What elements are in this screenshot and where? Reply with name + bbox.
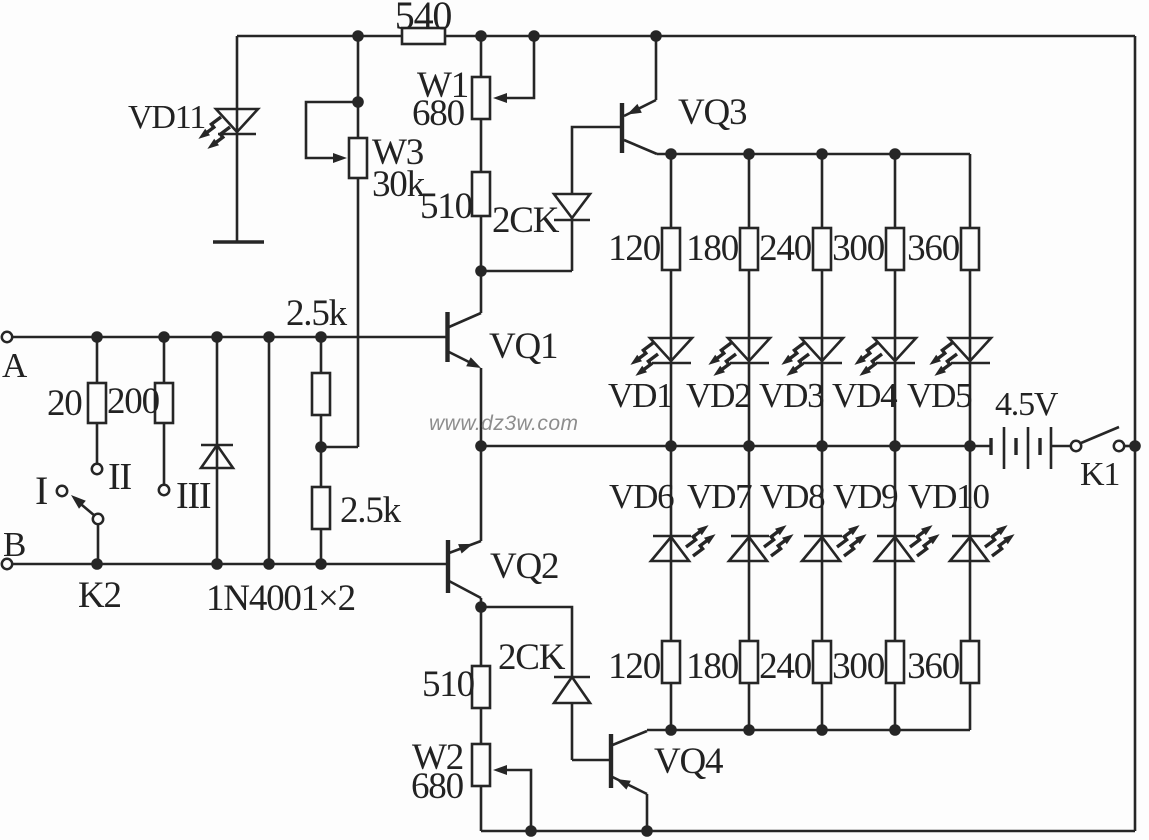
svg-text:VD6: VD6 <box>609 477 674 516</box>
svg-text:200: 200 <box>107 381 160 422</box>
switch K1 arm <box>1081 427 1119 443</box>
LED VD3 <box>781 338 843 376</box>
node A1 <box>91 331 103 343</box>
wire 1N4001 branch <box>216 337 219 564</box>
node upper rail col4 <box>889 148 901 160</box>
diode 1N4001 <box>201 444 233 447</box>
resistor 200 <box>155 383 173 423</box>
svg-text:K2: K2 <box>78 575 121 616</box>
node A3 <box>211 331 223 343</box>
resistor 2.5k lower <box>312 487 330 529</box>
wire right border <box>1134 36 1137 831</box>
diode 2CK upper <box>554 194 590 218</box>
contact I <box>57 486 67 496</box>
node middle rail col4 <box>889 440 901 452</box>
wire branch A4-B4 <box>268 337 271 564</box>
resistor 2.5k upper <box>312 373 330 415</box>
svg-text:2.5k: 2.5k <box>340 490 402 531</box>
svg-text:20: 20 <box>47 383 82 424</box>
resistor 510 lower <box>472 666 490 708</box>
svg-text:680: 680 <box>411 766 464 807</box>
wire 2CK to VQ4 base <box>572 759 609 762</box>
svg-text:120: 120 <box>608 228 661 269</box>
resistor 540 <box>402 28 445 44</box>
svg-text:2CK: 2CK <box>498 637 566 678</box>
svg-text:510: 510 <box>422 664 475 705</box>
wire lower col3 <box>821 446 824 730</box>
node collector VQ1 junction <box>475 265 487 277</box>
LED VD8 <box>802 525 867 561</box>
svg-text:360: 360 <box>907 646 960 687</box>
node B3 <box>211 558 223 570</box>
node middle rail col2 <box>743 440 755 452</box>
wire row B <box>7 563 447 566</box>
wire VQ3 base to 2CK <box>572 127 620 194</box>
resistor 300 upper <box>886 228 904 270</box>
svg-text:2CK: 2CK <box>492 200 560 241</box>
wire upper col5 <box>969 228 972 446</box>
node B1 <box>91 558 103 570</box>
resistor 360 upper <box>961 228 979 270</box>
node middle rail col1 <box>665 440 677 452</box>
wire 2.5k chain <box>320 337 323 564</box>
node top rail / W1 wiper <box>528 30 540 42</box>
LED VD5 <box>929 338 991 376</box>
node top rail / W1 <box>475 30 487 42</box>
svg-text:120: 120 <box>608 646 661 687</box>
node W3 wiper tap <box>352 96 364 108</box>
svg-text:1N4001×2: 1N4001×2 <box>206 578 355 619</box>
svg-text:2.5k: 2.5k <box>286 293 348 334</box>
LED VD2 <box>708 338 770 376</box>
switch K1 pole <box>1071 441 1081 451</box>
node VQ2 collector junction <box>475 601 487 613</box>
node top rail / VQ3 <box>650 30 662 42</box>
resistor 360 lower <box>961 641 979 683</box>
svg-text:VD8: VD8 <box>760 477 825 516</box>
transistor VQ1 bar <box>445 312 449 362</box>
node top rail / W3 <box>352 30 364 42</box>
node upper rail col3 <box>816 148 828 160</box>
LED VD1 <box>630 338 692 376</box>
potentiometer W2 <box>472 744 490 786</box>
potentiometer W1 <box>472 77 490 119</box>
svg-text:www.dz3w.com: www.dz3w.com <box>429 412 579 435</box>
svg-text:VD10: VD10 <box>908 477 989 516</box>
wire middle rail <box>481 445 970 448</box>
wire W1 wiper <box>500 36 534 98</box>
transistor VQ4 bar <box>609 734 613 788</box>
wire lower col5 <box>969 446 972 683</box>
node upper rail col1 <box>665 148 677 160</box>
resistor 510 upper <box>472 172 490 216</box>
node lower rail col2 <box>743 724 755 736</box>
svg-text:VD9: VD9 <box>833 477 898 516</box>
resistor 240 lower <box>813 641 831 683</box>
svg-text:I: I <box>35 468 47 513</box>
wire top supply rail <box>237 35 1135 38</box>
VQ2 emitter <box>449 541 481 553</box>
wire lower col4 <box>894 446 897 730</box>
svg-text:VD1: VD1 <box>608 376 672 415</box>
node lower rail col3 <box>816 724 828 736</box>
contact III <box>159 485 169 495</box>
wire lower col1 <box>670 446 673 730</box>
ground <box>213 240 264 243</box>
VQ3 collector <box>624 140 657 154</box>
svg-text:K1: K1 <box>1080 456 1119 493</box>
terminal A <box>2 332 12 342</box>
wire VQ2 to 2CK lower <box>481 607 572 677</box>
node middle rail col3 <box>816 440 828 452</box>
wire battery to K1 <box>1051 445 1071 448</box>
VQ4 collector <box>613 731 648 745</box>
W1 wiper arrow <box>493 93 507 103</box>
wire W3 branch <box>357 36 360 447</box>
node 2.5k junction <box>315 441 327 453</box>
resistor 120 upper <box>662 228 680 270</box>
switch K1 contact <box>1114 441 1124 451</box>
resistor 120 lower <box>662 641 680 683</box>
LED VD10 <box>950 525 1015 561</box>
diode 2CK lower <box>554 676 590 679</box>
svg-text:VQ4: VQ4 <box>654 741 723 782</box>
wire 200 branch <box>163 337 166 485</box>
svg-text:30k: 30k <box>372 164 426 205</box>
wire lower col2 <box>748 446 751 730</box>
transistor VQ2 bar <box>446 540 450 593</box>
svg-text:II: II <box>108 456 131 498</box>
wire W2 wiper <box>500 770 531 831</box>
svg-text:300: 300 <box>832 228 885 269</box>
svg-text:VD2: VD2 <box>686 376 750 415</box>
node B5 <box>315 558 327 570</box>
contact II <box>92 464 102 474</box>
node W2 wiper / bottom rail <box>525 825 537 837</box>
LED VD11 symbol <box>216 109 258 132</box>
wire K1 to border <box>1124 445 1135 448</box>
svg-text:180: 180 <box>686 228 739 269</box>
resistor 300 lower <box>886 641 904 683</box>
wire upper col3 <box>821 154 824 446</box>
svg-text:510: 510 <box>420 186 473 227</box>
wire 2CK to node <box>481 270 572 273</box>
svg-text:360: 360 <box>907 228 960 269</box>
resistor 180 lower <box>740 641 758 683</box>
node lower rail col1 <box>665 724 677 736</box>
VQ1 collector <box>449 313 481 327</box>
VQ2 collector <box>449 581 481 598</box>
svg-text:4.5V: 4.5V <box>995 386 1059 423</box>
VQ3 emitter <box>655 36 658 100</box>
wire 510-W2 chain <box>480 607 483 831</box>
wire row A <box>7 336 446 339</box>
terminal B <box>2 559 12 569</box>
node VQ4 emitter / bottom rail <box>641 825 653 837</box>
transistor VQ3 bar <box>620 103 624 153</box>
svg-text:VQ1: VQ1 <box>489 326 557 367</box>
LED VD4 <box>854 338 916 376</box>
svg-text:540: 540 <box>395 0 452 38</box>
switch K2 pivot <box>93 514 103 524</box>
wire upper rail <box>657 153 970 156</box>
wire 20 branch <box>96 337 99 464</box>
node A5 <box>315 331 327 343</box>
resistor 180 upper <box>740 228 758 270</box>
svg-text:680: 680 <box>412 93 465 134</box>
LED VD7 <box>729 525 794 561</box>
node A2 <box>158 331 170 343</box>
svg-text:240: 240 <box>759 646 812 687</box>
svg-text:A: A <box>2 346 28 385</box>
svg-text:VD11: VD11 <box>128 99 205 136</box>
svg-text:VD4: VD4 <box>832 376 897 415</box>
switch K2 arm <box>79 503 95 517</box>
svg-text:180: 180 <box>686 646 739 687</box>
battery 4.5V <box>989 438 992 455</box>
node B4 <box>263 558 275 570</box>
svg-text:VD5: VD5 <box>907 376 972 415</box>
wire upper col4 <box>894 154 897 446</box>
node middle rail col5 <box>964 440 976 452</box>
svg-text:VD7: VD7 <box>687 477 752 516</box>
node VQ1-VQ2 emitter junction <box>475 440 487 452</box>
svg-text:300: 300 <box>832 646 885 687</box>
LED VD6 <box>651 525 716 561</box>
node right border / K1 <box>1129 440 1141 452</box>
svg-text:VQ3: VQ3 <box>678 92 747 133</box>
wire upper col2 <box>748 154 751 446</box>
wire upper col1 <box>670 154 673 446</box>
wire middle rail to battery <box>970 445 991 448</box>
LED VD9 <box>875 525 940 561</box>
VQ4 emitter <box>613 777 648 794</box>
VQ1 emitter <box>449 352 474 365</box>
wire VD11 branch <box>236 36 239 242</box>
resistor 240 upper <box>813 228 831 270</box>
node upper rail col2 <box>743 148 755 160</box>
wire W1-510 chain <box>480 36 483 271</box>
svg-text:VQ2: VQ2 <box>490 546 558 587</box>
wire bottom rail <box>481 830 1135 833</box>
svg-text:VD3: VD3 <box>759 376 824 415</box>
potentiometer W3 <box>349 138 367 178</box>
wire lower rail <box>647 729 970 732</box>
svg-text:B: B <box>3 525 25 564</box>
wire K2 to row B <box>97 524 100 564</box>
W2 wiper arrow <box>493 765 507 775</box>
resistor 20 <box>88 383 106 423</box>
svg-text:240: 240 <box>759 228 812 269</box>
wire W3 wiper <box>306 102 358 158</box>
W3 wiper arrow <box>333 153 347 163</box>
svg-text:III: III <box>176 475 211 517</box>
node lower rail col4 <box>889 724 901 736</box>
node A4 <box>263 331 275 343</box>
